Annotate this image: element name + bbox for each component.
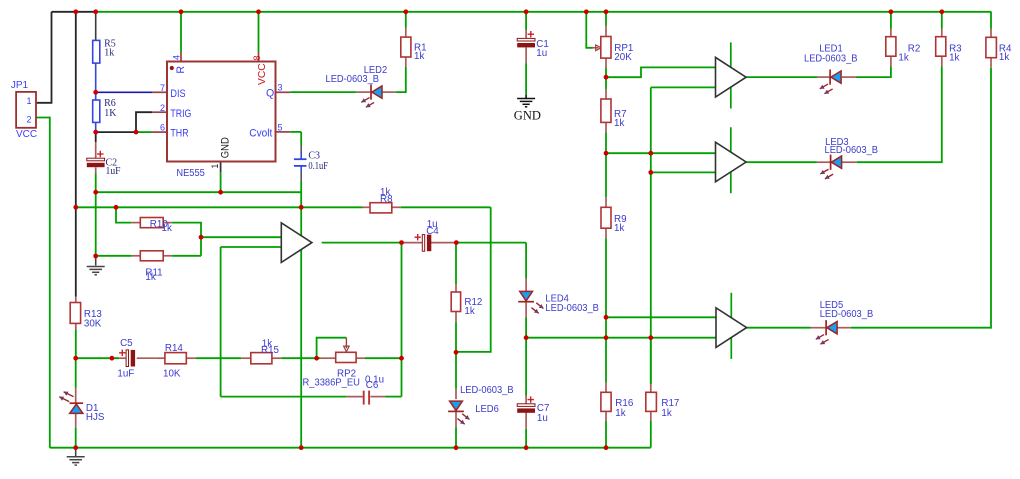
- svg-text:TRIG: TRIG: [170, 108, 191, 120]
- svg-text:VCC: VCC: [257, 63, 268, 85]
- svg-text:2: 2: [27, 115, 32, 125]
- svg-text:1k: 1k: [464, 306, 474, 317]
- svg-text:1K: 1K: [104, 108, 117, 119]
- svg-text:1uF: 1uF: [117, 368, 134, 379]
- svg-text:C3: C3: [308, 151, 320, 162]
- svg-text:LED-0603_B: LED-0603_B: [804, 54, 858, 65]
- svg-text:1k: 1k: [614, 223, 624, 234]
- svg-text:R14: R14: [165, 343, 184, 354]
- svg-text:DIS: DIS: [170, 88, 185, 100]
- svg-text:R15: R15: [261, 345, 280, 356]
- svg-text:0.1uF: 0.1uF: [308, 161, 328, 172]
- svg-text:LED-0603_B: LED-0603_B: [825, 145, 879, 156]
- svg-text:1u: 1u: [537, 413, 548, 424]
- svg-text:1k: 1k: [162, 223, 172, 234]
- svg-text:LED-0603_B: LED-0603_B: [545, 303, 599, 314]
- svg-text:NE555: NE555: [176, 168, 205, 179]
- svg-text:1k: 1k: [999, 52, 1009, 63]
- svg-text:THR: THR: [170, 128, 188, 140]
- svg-text:R8: R8: [380, 194, 393, 205]
- svg-text:6: 6: [160, 123, 165, 133]
- svg-text:10K: 10K: [163, 368, 181, 379]
- svg-text:R2: R2: [908, 44, 921, 55]
- svg-text:30K: 30K: [84, 319, 102, 330]
- svg-text:C6: C6: [366, 380, 379, 391]
- svg-text:LED-0603_B: LED-0603_B: [820, 309, 874, 320]
- svg-text:1u: 1u: [536, 48, 547, 59]
- svg-text:1k: 1k: [949, 53, 959, 64]
- svg-text:2: 2: [160, 103, 165, 113]
- svg-text:LED6: LED6: [475, 404, 499, 415]
- svg-text:1k: 1k: [614, 118, 624, 129]
- svg-text:Q: Q: [266, 88, 274, 100]
- svg-text:R: R: [175, 66, 187, 74]
- svg-text:8: 8: [252, 55, 262, 60]
- svg-text:1uF: 1uF: [106, 166, 121, 177]
- svg-text:GND: GND: [219, 137, 231, 158]
- svg-text:7: 7: [160, 83, 165, 93]
- svg-text:VCC: VCC: [16, 129, 37, 140]
- svg-text:HJS: HJS: [86, 412, 105, 423]
- svg-text:20K: 20K: [614, 52, 632, 63]
- svg-text:1k: 1k: [145, 272, 155, 283]
- svg-text:JP1: JP1: [11, 80, 29, 91]
- svg-text:1: 1: [27, 96, 32, 106]
- svg-text:1: 1: [210, 164, 220, 169]
- svg-text:5: 5: [278, 122, 283, 132]
- svg-text:1k: 1k: [615, 408, 625, 419]
- svg-text:LED-0603_B: LED-0603_B: [326, 74, 380, 85]
- svg-text:Cvolt: Cvolt: [249, 128, 272, 140]
- svg-text:4: 4: [171, 55, 181, 60]
- svg-text:GND: GND: [514, 109, 541, 123]
- svg-text:1k: 1k: [104, 48, 114, 59]
- svg-text:C4: C4: [426, 226, 439, 237]
- svg-text:R_3386P_EU: R_3386P_EU: [303, 377, 360, 388]
- svg-text:1k: 1k: [414, 51, 424, 62]
- svg-text:3: 3: [278, 83, 283, 93]
- svg-text:C5: C5: [120, 338, 133, 349]
- svg-text:LED-0603_B: LED-0603_B: [460, 385, 514, 396]
- svg-text:1k: 1k: [661, 408, 671, 419]
- svg-text:1k: 1k: [898, 53, 908, 64]
